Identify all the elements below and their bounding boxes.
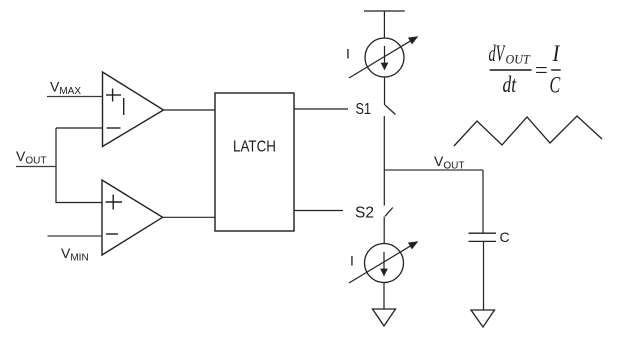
ground G2 <box>471 310 495 327</box>
op-amp U1 minus sign <box>107 127 121 129</box>
svg-text:LATCH: LATCH <box>233 139 276 156</box>
wire S2 to current source I2 <box>383 217 385 244</box>
op-amp U1 stray vertical mark <box>123 98 125 115</box>
svg-text:dV: dV <box>489 42 507 67</box>
wire capacitor to ground <box>483 242 485 311</box>
equation fraction bar right <box>551 69 561 71</box>
ground G1 <box>373 309 396 326</box>
op-amp U1 plus sign <box>106 89 121 102</box>
wire U2 output to latch <box>163 216 215 218</box>
capacitor C top plate <box>469 232 497 234</box>
latch block <box>215 93 294 231</box>
wire VOUT node horizontal <box>384 169 483 171</box>
svg-text:=: = <box>535 57 548 82</box>
equation dVout/dt = I/C <box>489 41 562 98</box>
svg-text:S1: S1 <box>356 101 372 118</box>
wire U1 output to latch <box>164 109 216 111</box>
wire U2 non-inverting input <box>56 202 102 204</box>
switch S2 blade <box>385 208 393 217</box>
equation fraction bar left <box>490 69 532 71</box>
wire VMIN input <box>48 235 103 237</box>
svg-text:S2: S2 <box>355 205 374 222</box>
wire VOUT feedback vertical <box>55 128 57 203</box>
wire VOUT node to capacitor <box>482 170 484 233</box>
current source I1 internal arrow <box>382 46 388 69</box>
supply rail bar <box>364 10 405 12</box>
svg-text:OUT: OUT <box>506 52 531 66</box>
wire latch to S1 <box>294 108 348 110</box>
wire VMAX input <box>47 96 103 98</box>
current source I2 variable arrow <box>349 242 417 283</box>
wire VOUT stub <box>16 166 57 168</box>
svg-text:I: I <box>350 253 354 269</box>
wire U1 inverting input <box>56 127 103 129</box>
wire VOUT node to S2 <box>383 170 385 206</box>
current source I1 circle <box>365 38 404 77</box>
op-amp U2 minus sign <box>106 233 118 235</box>
switch S1 blade <box>385 105 396 115</box>
op-amp U2 comparator triangle <box>102 180 163 255</box>
op-amp U2 plus sign <box>106 195 123 210</box>
svg-text:C: C <box>500 229 510 245</box>
current source I2 internal arrow <box>381 252 387 275</box>
triangle waveform <box>454 116 602 146</box>
wire S1 to VOUT node <box>383 116 385 170</box>
wire supply to current source I1 <box>383 11 385 38</box>
svg-text:C: C <box>550 73 561 98</box>
current source I1 variable arrow <box>349 37 417 78</box>
capacitor C bottom plate <box>469 240 497 242</box>
wire latch to S2 <box>294 210 343 212</box>
wire I2 to ground <box>383 283 385 310</box>
svg-text:dt: dt <box>503 73 518 98</box>
op-amp U1 comparator triangle <box>103 72 164 147</box>
current source I2 circle <box>365 244 404 283</box>
svg-text:I: I <box>346 46 350 62</box>
wire I1 to switch S1 <box>384 77 386 105</box>
